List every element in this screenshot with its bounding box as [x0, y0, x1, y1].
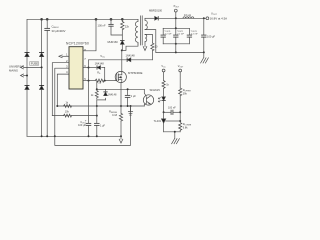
- node source rail G: [120, 105, 122, 107]
- svg-text:8: 8: [84, 48, 86, 52]
- svg-text:TL431: TL431: [154, 119, 162, 123]
- pin numbers left: [66, 52, 68, 74]
- wire top bulk rail: [27, 19, 138, 55]
- inductor 10uH: [183, 17, 194, 19]
- capacitor 100nF TL431: [171, 110, 173, 114]
- svg-text:2.2 mF: 2.2 mF: [165, 33, 172, 35]
- label Cout2: [177, 31, 184, 36]
- svg-text:1N4148: 1N4148: [108, 93, 117, 96]
- node bulk rail junctions: [41, 18, 124, 20]
- svg-text:VOUT: VOUT: [178, 65, 184, 68]
- pulldown bracket: [97, 89, 106, 100]
- node rail2 top: [130, 105, 132, 107]
- diode bridge D4 bottom-right: [40, 85, 44, 89]
- capacitor 100uF output: [202, 18, 206, 52]
- diode bridge D1 top-left: [25, 53, 29, 57]
- wire cap bank bottom bus: [163, 43, 189, 45]
- resistor 1k led: [162, 81, 165, 97]
- label Rlower: [183, 123, 192, 129]
- diode bridge D3 bottom-left: [25, 85, 29, 89]
- wire mains N to bridge: [24, 75, 28, 77]
- terminal Vout sense: [179, 69, 182, 72]
- svg-text:RG: RG: [97, 71, 101, 74]
- node ref divider: [179, 120, 181, 122]
- label Cout3: [191, 31, 198, 36]
- wire opto top line: [97, 88, 145, 90]
- snubber capacitor 100nF: [109, 19, 123, 35]
- svg-text:1k: 1k: [166, 83, 169, 86]
- wire Vcc line: [89, 59, 153, 61]
- wire 100nF row: [164, 111, 181, 113]
- svg-text:+: +: [85, 118, 87, 122]
- pin 1 arrow Adj: [59, 55, 69, 58]
- pin 8 HV wire to bulk rail: [83, 19, 96, 51]
- wire source: [120, 83, 122, 114]
- node gate ladder left: [88, 80, 90, 82]
- connector mains input N: [21, 74, 24, 77]
- node mains N: [26, 75, 28, 77]
- capacitor Cbulk: [45, 19, 50, 136]
- svg-text:20: 20: [155, 45, 158, 49]
- svg-text:10 µH: 10 µH: [184, 13, 191, 17]
- wire pulldown to rail G and 10k row: [96, 100, 98, 116]
- terminal Vcc sense: [162, 69, 165, 72]
- svg-text:10k: 10k: [65, 110, 70, 113]
- capacitor 1uF opto: [125, 89, 130, 106]
- wire aux top to resistor: [145, 34, 152, 43]
- wire bridge mid right: [41, 57, 43, 86]
- node pin6: [88, 67, 90, 69]
- wire rail1 primary return: [27, 135, 121, 137]
- node 10k right: [96, 115, 98, 117]
- wire TL431 ref: [166, 120, 181, 122]
- diode 1N4148 Vcc: [127, 58, 131, 62]
- resistor 20 aux: [151, 43, 154, 60]
- svg-text:1N4148: 1N4148: [95, 61, 105, 65]
- svg-text:2.2 mF: 2.2 mF: [191, 33, 198, 35]
- capacitor Cout1: [161, 28, 165, 44]
- wire 10k row: [52, 115, 97, 117]
- pin 6 stub: [83, 67, 89, 69]
- svg-text:2.2 mF: 2.2 mF: [177, 33, 184, 35]
- svg-text:MAINS: MAINS: [9, 68, 18, 72]
- transformer T1 primary winding: [135, 19, 138, 44]
- wire aux bottom to gnd arrow: [144, 42, 146, 47]
- capacitor 1uF CS: [95, 116, 100, 137]
- svg-text:1: 1: [66, 52, 68, 56]
- resistor 10 gate: [95, 79, 104, 82]
- resistor 10k: [64, 114, 72, 117]
- svg-text:2: 2: [66, 59, 68, 63]
- optocoupler U2 SFH615 transistor: [143, 89, 153, 106]
- svg-text:100 µF: 100 µF: [207, 35, 216, 39]
- wire Vcc corner to pin6 column: [88, 60, 90, 81]
- wire drain: [121, 50, 123, 71]
- wire drv line pin5: [83, 80, 95, 82]
- svg-text:33 µF/400V: 33 µF/400V: [52, 29, 66, 33]
- resistor Rupper: [179, 88, 182, 121]
- svg-text:1 µF: 1 µF: [100, 124, 106, 127]
- label Cbulk value: [52, 25, 66, 33]
- ground earth secondary: [201, 52, 209, 63]
- svg-text:4: 4: [66, 70, 68, 74]
- connector mains input L: [21, 66, 24, 69]
- svg-text:SFH615: SFH615: [150, 88, 161, 92]
- node 1uF opto top: [127, 88, 129, 90]
- wire cap bank feed: [175, 18, 177, 28]
- capacitor Cout3: [187, 28, 191, 44]
- svg-text:10: 10: [98, 81, 101, 85]
- svg-text:6.8k: 6.8k: [183, 126, 188, 129]
- pin 4 wire GND: [57, 74, 69, 106]
- node rail G left: [56, 105, 58, 107]
- resistor 1k pulldown: [95, 89, 98, 99]
- pin 2 wire FB: [52, 63, 69, 116]
- node 1uF opto bottom: [127, 105, 129, 107]
- transformer T1 aux winding: [145, 34, 147, 41]
- wire cap bank top bus: [163, 27, 189, 29]
- svg-text:NCP1200P60: NCP1200P60: [66, 41, 89, 45]
- ground earth TL431: [172, 132, 180, 144]
- diode 1N4148 gate: [97, 66, 101, 70]
- node rail1 junctions: [41, 135, 122, 137]
- pin numbers right: [84, 48, 86, 81]
- node pulldown rail G: [96, 105, 98, 107]
- wire Vout sense down: [179, 72, 181, 88]
- svg-text:VCC: VCC: [161, 65, 166, 68]
- diode opto LED: [162, 97, 166, 112]
- svg-text:MUR160: MUR160: [108, 40, 119, 44]
- svg-text:100 µF: 100 µF: [78, 124, 86, 127]
- fuse label box: [30, 62, 39, 66]
- svg-text:39k: 39k: [183, 92, 188, 95]
- arrows LED light: [158, 97, 161, 102]
- label Rsense: [109, 111, 118, 117]
- wire secondary top: [145, 17, 155, 19]
- svg-text:CBULK: CBULK: [52, 25, 60, 30]
- svg-text:1N4148: 1N4148: [126, 54, 136, 58]
- wire primary bottom to drain: [122, 44, 138, 50]
- pulldown stub from gate line: [96, 81, 98, 90]
- transformer T1 secondary winding: [145, 18, 147, 29]
- node 100nF divider: [179, 111, 181, 113]
- label Cvcc: [78, 121, 87, 127]
- snubber resistor 22k: [121, 19, 124, 40]
- ground arrow aux: [143, 47, 147, 51]
- node mains L: [41, 66, 43, 68]
- label UNIVERSAL MAINS: [9, 65, 25, 73]
- wire Vcc sense down: [163, 72, 165, 81]
- wire gate line to mosfet: [104, 80, 115, 82]
- resistor Rsense: [119, 113, 122, 136]
- node LED bottom: [163, 111, 165, 113]
- svg-text:1k: 1k: [91, 94, 94, 97]
- diode MBR20100: [155, 17, 159, 21]
- ground arrow rail1: [119, 136, 123, 143]
- wire secondary return: [145, 30, 156, 53]
- wire cap bank bottom to line B: [175, 44, 177, 53]
- svg-text:100 nF: 100 nF: [168, 107, 176, 110]
- wire TL431 anode row: [164, 131, 181, 133]
- svg-text:MBR20100: MBR20100: [149, 9, 163, 13]
- wire rail2: [55, 106, 131, 145]
- svg-text:VCC: VCC: [100, 54, 105, 59]
- wire rail G: [57, 105, 144, 107]
- wire mains L to bridge: [24, 66, 42, 68]
- transformer T1 core: [141, 16, 143, 45]
- terminal Vout: [206, 17, 209, 20]
- node drain junction: [121, 49, 123, 51]
- svg-text:MTP6N60E: MTP6N60E: [128, 71, 143, 75]
- diode MUR160: [120, 40, 124, 50]
- ground chassis primary: [128, 106, 132, 115]
- node pulldown top: [96, 88, 98, 90]
- wire line B secondary ground: [156, 51, 204, 53]
- svg-text:0.18: 0.18: [112, 114, 117, 117]
- capacitor Cvcc: [86, 81, 91, 137]
- svg-text:1 µF: 1 µF: [131, 95, 137, 98]
- wire secondary rail: [158, 17, 207, 19]
- svg-text:1k: 1k: [65, 101, 68, 104]
- gate ladder top row with diode 1N4148: [89, 68, 105, 81]
- svg-text:7: 7: [84, 57, 86, 61]
- label Rupper: [183, 89, 192, 95]
- IC U1 NCP1200P60 body: [69, 47, 83, 89]
- diode 1N4148 pulldown: [104, 92, 108, 96]
- pin 3 wire CS: [55, 68, 69, 136]
- svg-text:100 nF: 100 nF: [98, 23, 106, 27]
- svg-text:POUT: POUT: [174, 5, 180, 8]
- node anode row: [174, 131, 176, 133]
- label Cout1: [165, 31, 172, 36]
- resistor Rlower: [179, 123, 182, 132]
- node line B: [175, 51, 205, 53]
- resistor 1k rail G: [64, 105, 72, 108]
- svg-text:3: 3: [66, 64, 68, 68]
- TL431 U3: [162, 112, 166, 132]
- svg-text:FUSE: FUSE: [31, 62, 38, 66]
- wire bridge mid left: [26, 57, 28, 86]
- svg-text:16.8V at 4.5A: 16.8V at 4.5A: [210, 16, 228, 20]
- svg-text:22k: 22k: [125, 24, 130, 28]
- terminal Pout: [174, 9, 177, 18]
- node cap bank: [175, 27, 177, 45]
- capacitor Cout2: [174, 28, 178, 44]
- wire bridge right branch upper: [41, 19, 43, 55]
- node secondary rail: [175, 17, 205, 19]
- mosfet Q1 MTP6N60E: [115, 71, 126, 82]
- diode bridge D2 top-right: [40, 53, 44, 57]
- wire bridge lower legs: [26, 89, 28, 136]
- node gate ladder right: [104, 80, 106, 82]
